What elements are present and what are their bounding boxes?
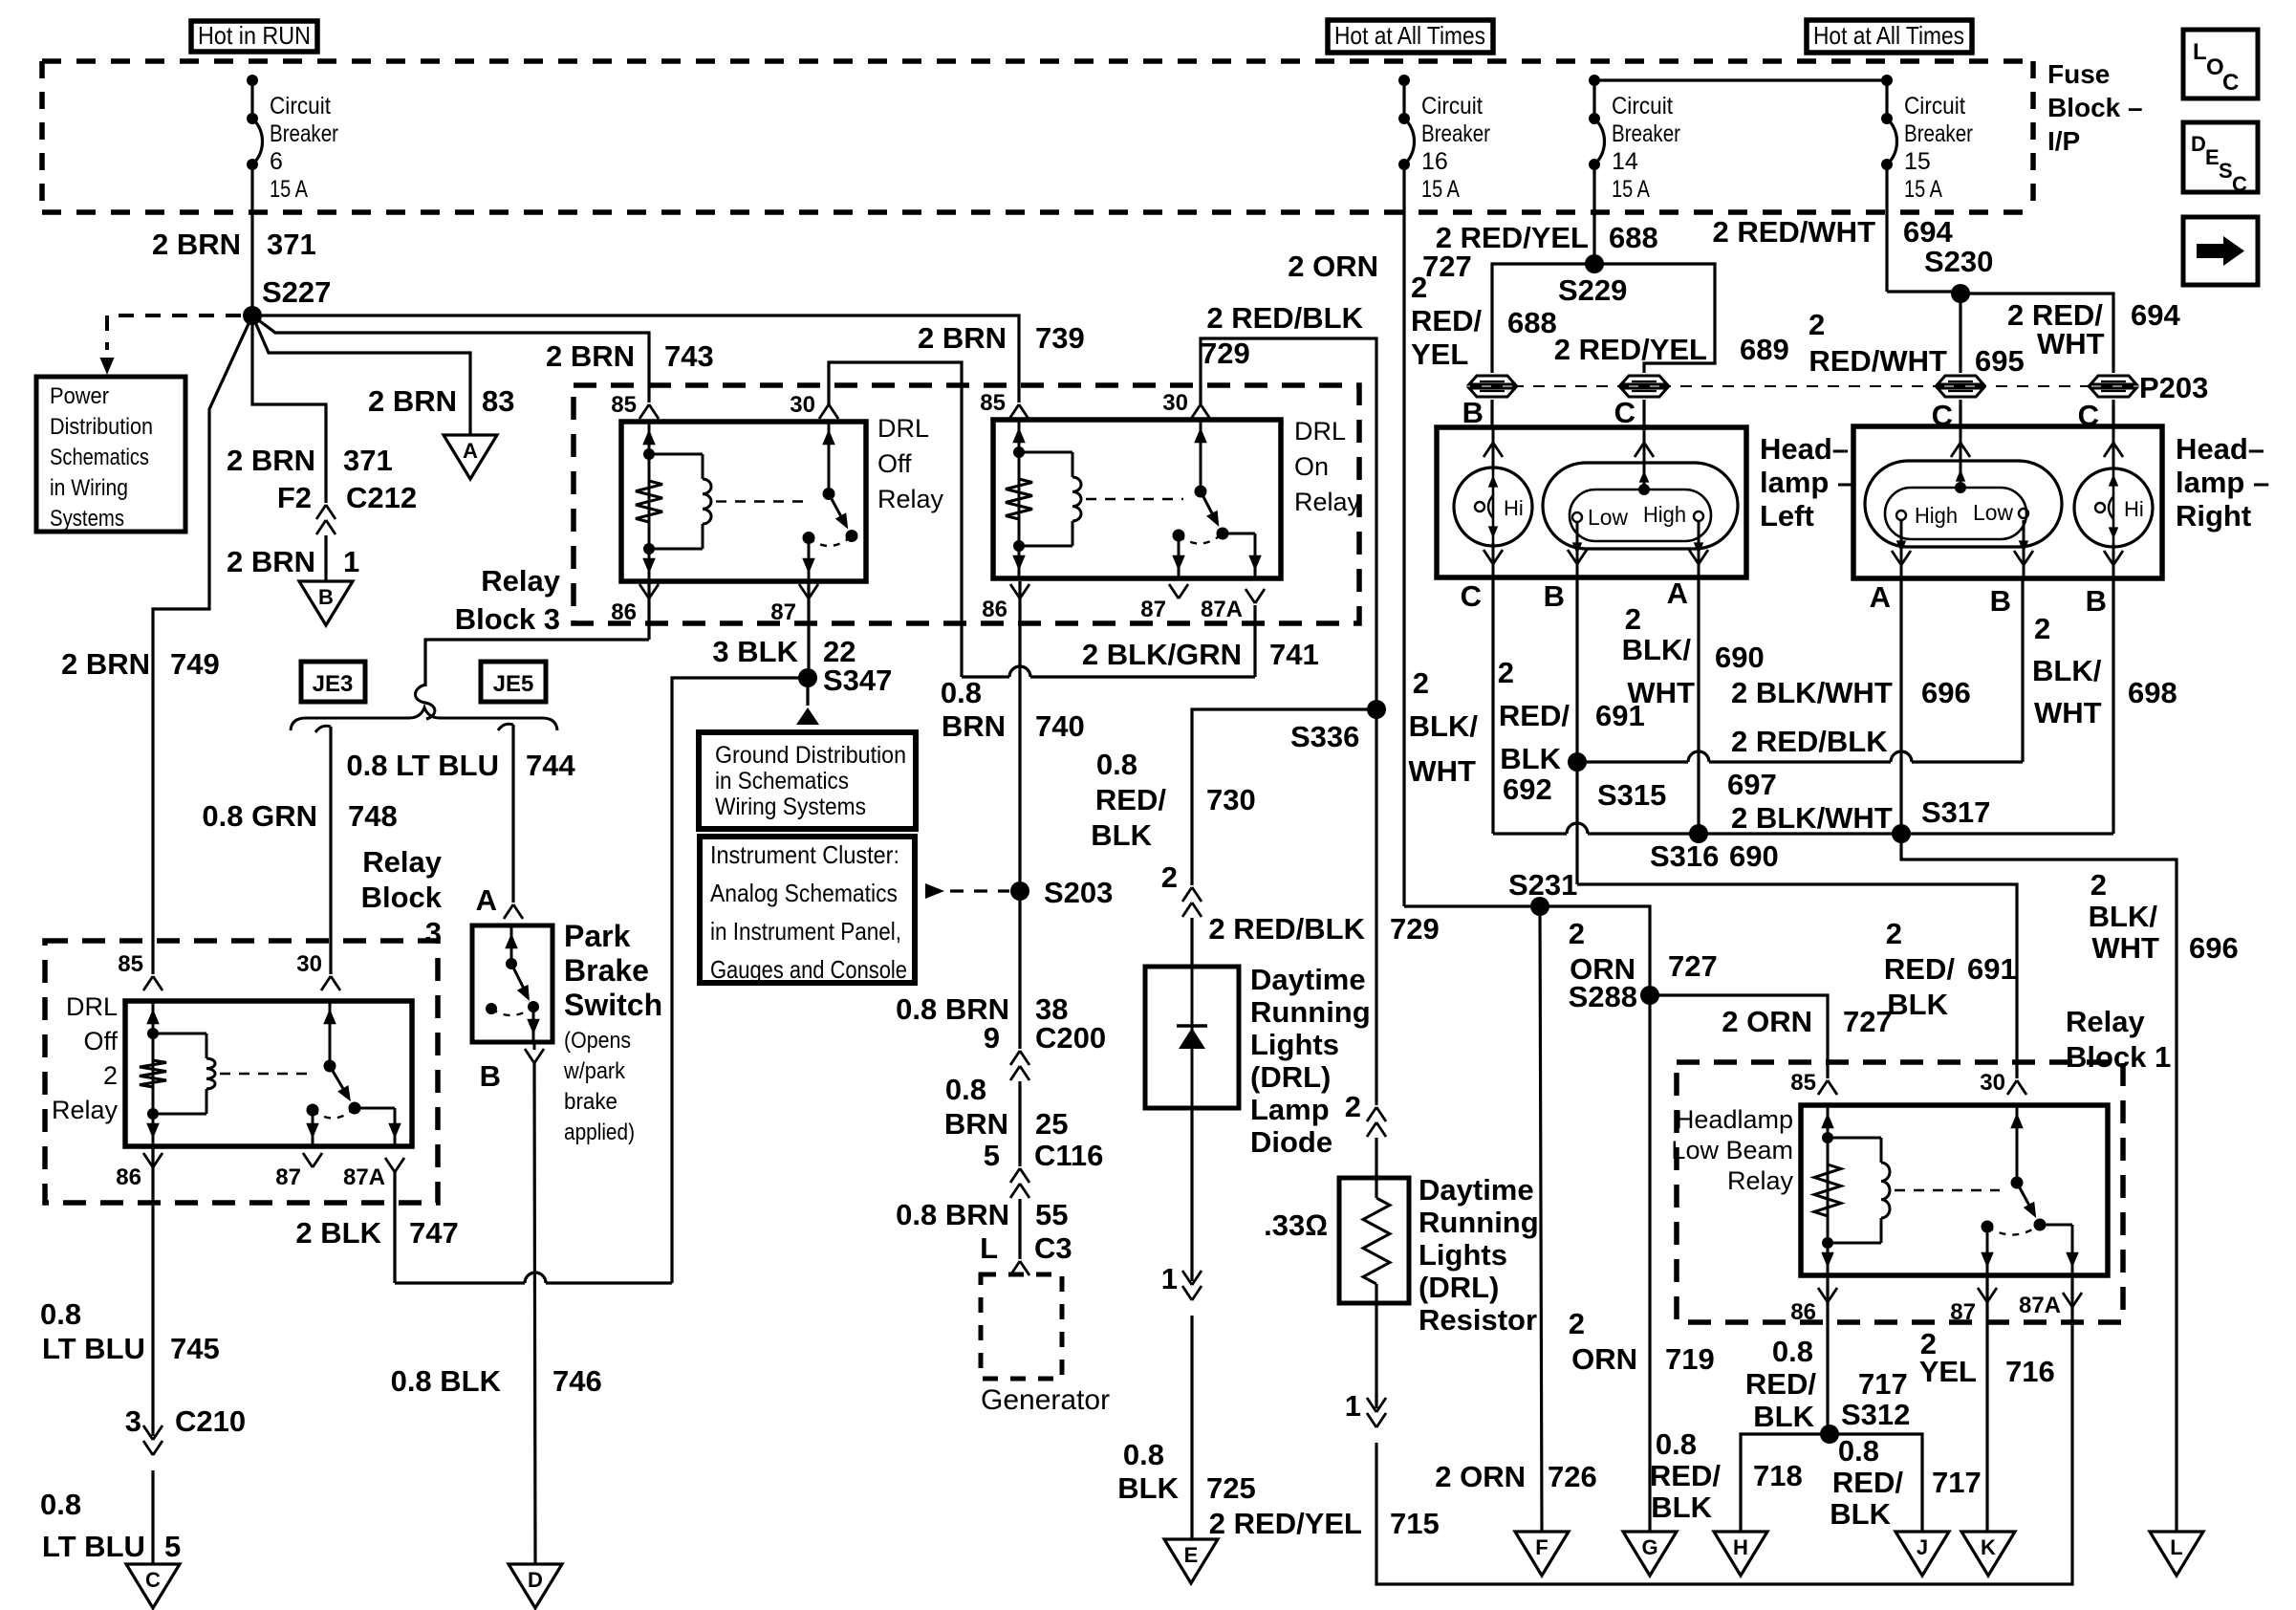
headlamp left low/high bulb: [1543, 427, 1738, 577]
wire from DRL Off relay 86 to splice brace: [416, 581, 660, 719]
svg-text:RED/: RED/: [1499, 699, 1570, 732]
ground distribution note box: [699, 732, 916, 829]
legend DESC box: [2183, 122, 2258, 196]
svg-text:F: F: [1535, 1535, 1548, 1559]
svg-text:BRN: BRN: [942, 709, 1006, 743]
splice pack JE5 label box: [481, 662, 546, 702]
svg-text:725: 725: [1206, 1471, 1256, 1505]
svg-text:P203: P203: [2139, 371, 2208, 404]
wire 0.8 LT BLU 744 (JE5 to park brake switch A): [346, 724, 575, 919]
svg-text:Breaker: Breaker: [1904, 120, 1973, 147]
svg-text:Low: Low: [1588, 505, 1628, 530]
svg-text:87: 87: [275, 1164, 301, 1190]
svg-text:2 BRN: 2 BRN: [918, 321, 1007, 355]
connector pin 2 (diode feed): [1161, 860, 1202, 917]
svg-text:691: 691: [1967, 952, 2017, 986]
node S315: [1568, 752, 1666, 812]
svg-text:Off: Off: [877, 449, 912, 478]
svg-text:6: 6: [270, 148, 283, 175]
headlamp left Hi bulb: [1454, 427, 1532, 577]
svg-text:C: C: [1614, 396, 1635, 429]
svg-text:C116: C116: [1034, 1139, 1103, 1172]
svg-text:in Wiring: in Wiring: [50, 475, 128, 501]
headlamp left box: [1437, 427, 1853, 577]
pin 85 label (DRL Off relay): [611, 392, 637, 418]
svg-text:.33Ω: .33Ω: [1264, 1208, 1328, 1242]
svg-text:2 RED/BLK: 2 RED/BLK: [1206, 301, 1363, 335]
svg-text:RED/: RED/: [1832, 1466, 1903, 1499]
svg-text:Head–: Head–: [1760, 432, 1849, 466]
svg-text:Headlamp: Headlamp: [1676, 1105, 1793, 1134]
svg-text:Park: Park: [564, 919, 631, 953]
svg-text:2 RED/YEL: 2 RED/YEL: [1436, 221, 1589, 254]
wire 2 BRN 371 (S227 to C212): [227, 315, 393, 503]
svg-text:WHT: WHT: [2034, 696, 2102, 729]
pin 86 label (low beam relay): [1790, 1288, 1837, 1325]
wire 0.8 BRN 55 (C116 to C3): [896, 1198, 1068, 1259]
svg-text:RED/: RED/: [1884, 952, 1955, 986]
svg-text:727: 727: [1843, 1005, 1893, 1038]
svg-text:WHT: WHT: [2037, 327, 2105, 360]
svg-text:2 BLK: 2 BLK: [295, 1216, 381, 1250]
svg-text:16: 16: [1421, 148, 1448, 175]
svg-text:Hi: Hi: [1504, 496, 1524, 520]
svg-text:Circuit: Circuit: [270, 93, 331, 120]
svg-text:0.8: 0.8: [40, 1488, 81, 1521]
svg-text:2 BLK/GRN: 2 BLK/GRN: [1082, 638, 1242, 671]
svg-text:Block: Block: [361, 881, 443, 914]
svg-text:lamp –: lamp –: [1760, 466, 1853, 499]
svg-text:25: 25: [1035, 1107, 1068, 1141]
svg-text:DRL: DRL: [877, 414, 929, 443]
svg-text:S288: S288: [1569, 980, 1637, 1013]
wire diode feed lower: [1190, 918, 1193, 967]
svg-text:Relay: Relay: [877, 485, 944, 513]
svg-text:2 ORN: 2 ORN: [1435, 1460, 1526, 1493]
svg-text:C3: C3: [1034, 1231, 1072, 1265]
svg-text:2: 2: [1498, 656, 1514, 689]
headlamp right Hi bulb: [2074, 426, 2153, 578]
svg-text:Daytime: Daytime: [1250, 963, 1366, 996]
svg-text:87: 87: [770, 599, 796, 625]
node S347: [798, 664, 892, 697]
svg-text:745: 745: [170, 1332, 220, 1365]
pin B label (headlamp left top): [1462, 396, 1492, 429]
svg-text:2: 2: [2034, 612, 2050, 645]
pin C label (headlamp right top): [1932, 399, 1960, 432]
label Hot in RUN: [191, 21, 317, 52]
fuse block I/P dashed outline: [42, 61, 2033, 212]
svg-text:Running: Running: [1250, 995, 1371, 1029]
svg-text:BLK: BLK: [1830, 1497, 1891, 1531]
svg-text:0.8: 0.8: [1838, 1434, 1879, 1468]
wire 2 BRN 743 (S227 to DRL Off relay 85): [252, 315, 714, 419]
pin 85 label (DRL On relay): [980, 390, 1006, 416]
svg-text:brake: brake: [564, 1089, 617, 1115]
svg-text:0.8: 0.8: [1123, 1438, 1164, 1471]
svg-text:2: 2: [1569, 917, 1585, 950]
wire 2 RED/BLK 697 (S315 splice run): [1577, 725, 2023, 801]
svg-text:S230: S230: [1924, 245, 1993, 278]
wire 2 BLK/WHT 698 (headlamp right Hi B down): [2032, 578, 2177, 834]
svg-text:2 BRN: 2 BRN: [227, 545, 315, 578]
wire 2 BRN 749 (S227 to DRL Off 2 relay 85): [61, 315, 252, 990]
svg-text:727: 727: [1422, 250, 1472, 283]
label Hot at All Times (left): [1328, 20, 1493, 53]
svg-text:2 RED/YEL: 2 RED/YEL: [1209, 1507, 1362, 1540]
pin A label (headlamp left bottom): [1667, 577, 1688, 610]
svg-text:Running: Running: [1419, 1206, 1539, 1239]
svg-text:BLK/: BLK/: [1409, 709, 1479, 743]
wire 2 BRN 371 (CB6 to S227): [152, 228, 316, 261]
svg-text:F2: F2: [277, 481, 312, 514]
svg-text:BLK: BLK: [1500, 742, 1561, 775]
node S229: [1558, 254, 1627, 307]
wire 0.8 RED/BLK 717 (low beam relay 86 to S312): [1745, 1275, 1908, 1433]
wire 2 BLK GRN 741 (DRL On 87A): [1082, 605, 1319, 677]
pin B label (headlamp left bottom): [1544, 579, 1565, 613]
svg-text:BRN: BRN: [944, 1107, 1008, 1141]
wire 2 BRN 1 (C212 to page connector B): [227, 535, 359, 581]
pin 87 label (DRL Off 2 relay): [275, 1153, 322, 1190]
wire 2 BLK/WHT 692 (headlamp left C down): [1408, 577, 1551, 834]
svg-text:15: 15: [1904, 148, 1931, 175]
connector C116 pin 5: [984, 1139, 1104, 1198]
svg-text:DRL: DRL: [66, 992, 118, 1021]
svg-text:Resistor: Resistor: [1419, 1303, 1537, 1337]
svg-text:Daytime: Daytime: [1419, 1173, 1534, 1207]
pin 87 label (DRL Off relay): [770, 584, 818, 625]
DRL Off 2 relay: [52, 992, 412, 1146]
svg-text:S203: S203: [1044, 876, 1113, 909]
wire 2 ORN 726 (S231 to page connector F): [1435, 906, 1596, 1532]
svg-text:2: 2: [1161, 860, 1178, 894]
legend LOC box: [2183, 30, 2258, 98]
svg-text:85: 85: [980, 390, 1006, 416]
svg-text:S227: S227: [262, 275, 331, 309]
pin 87A label (DRL On relay): [1201, 589, 1265, 622]
svg-text:Breaker: Breaker: [1421, 120, 1490, 147]
svg-text:I/P: I/P: [2047, 126, 2080, 156]
svg-text:C: C: [2222, 70, 2239, 96]
svg-text:0.8: 0.8: [1096, 748, 1137, 781]
DRL Off relay: [621, 414, 944, 581]
svg-text:Block –: Block –: [2047, 93, 2143, 122]
svg-text:Circuit: Circuit: [1904, 93, 1965, 120]
wire 2 RED/YEL 689 (S229 to headlamp left C): [1554, 264, 1789, 373]
svg-text:C: C: [2232, 172, 2247, 196]
svg-text:B: B: [1990, 584, 2011, 618]
node S203: [1010, 876, 1113, 909]
wire 0.8 BLK 725 / 2 RED/YEL 715 to page connector E: [1117, 1316, 1439, 1540]
wire 2 RED/BLK 691 (headlamp left B to low beam relay 30): [1498, 577, 2026, 1095]
svg-text:H: H: [1733, 1535, 1748, 1559]
svg-text:85: 85: [118, 951, 143, 977]
svg-text:Power: Power: [50, 383, 109, 409]
page connector C: [126, 1564, 180, 1608]
svg-text:0.8: 0.8: [1656, 1427, 1697, 1461]
svg-text:87A: 87A: [2019, 1293, 2061, 1318]
power distribution schematics note box: [36, 377, 185, 532]
wire 2 RED/WHT 694 (S230 to headlamp right Hi): [1960, 294, 2180, 373]
relay block 3 dashed outline: [455, 385, 1359, 636]
wire 2 BRN 739 (S227 to DRL On relay 85): [252, 315, 1085, 419]
svg-text:Relay: Relay: [1294, 488, 1361, 516]
svg-text:Generator: Generator: [981, 1384, 1110, 1416]
svg-text:BLK: BLK: [1091, 818, 1152, 852]
wire 2 RED/BLK 729 label (S336 column): [1208, 912, 1439, 946]
svg-text:JE3: JE3: [313, 671, 354, 697]
svg-text:Relay: Relay: [362, 845, 442, 879]
pin 30 label (DRL Off 2 relay): [296, 951, 322, 977]
page connector J: [1895, 1532, 1949, 1576]
wire 2 YEL 716 (low beam relay 87 to page connector K): [1919, 1275, 2055, 1532]
pin B label (park brake switch): [480, 1049, 544, 1093]
svg-text:Right: Right: [2176, 499, 2251, 533]
svg-text:S336: S336: [1290, 720, 1359, 753]
svg-text:C: C: [1461, 579, 1482, 613]
P203 inline connector dashed row: [1470, 385, 2135, 387]
svg-text:High: High: [1643, 502, 1686, 527]
dashed arrow instrument cluster to S203: [925, 883, 1009, 899]
svg-text:LT BLU: LT BLU: [42, 1332, 145, 1365]
svg-text:(Opens: (Opens: [564, 1028, 631, 1054]
pin 86 label (DRL Off relay): [611, 599, 637, 625]
svg-text:746: 746: [552, 1364, 602, 1398]
svg-text:749: 749: [170, 647, 220, 681]
svg-text:15 A: 15 A: [1612, 176, 1650, 203]
svg-text:B: B: [318, 585, 334, 609]
svg-text:688: 688: [1609, 221, 1658, 254]
wire 2 ORN 719 (S288 to page connector G): [1569, 995, 1715, 1532]
pin C label (headlamp left top): [1614, 396, 1644, 429]
svg-text:LT BLU: LT BLU: [42, 1530, 145, 1563]
connector C200 pin 9: [984, 1021, 1106, 1080]
svg-text:2 RED/BLK: 2 RED/BLK: [1731, 725, 1888, 758]
svg-text:690: 690: [1715, 641, 1765, 674]
svg-text:Relay: Relay: [2066, 1005, 2145, 1038]
svg-text:2 BRN: 2 BRN: [61, 647, 150, 681]
svg-text:C210: C210: [175, 1404, 246, 1438]
pin A label (headlamp right bottom): [1870, 580, 1891, 614]
svg-text:86: 86: [116, 1164, 141, 1190]
pin 87 label (DRL On relay): [1140, 584, 1188, 622]
DRL resistor .33 ohm: [1264, 1138, 1539, 1408]
circuit breaker 16 (15A): [1398, 75, 1490, 906]
svg-text:A: A: [463, 439, 478, 463]
svg-text:729: 729: [1201, 337, 1250, 370]
node S336: [1290, 700, 1386, 753]
dashed reference to power distribution: [100, 315, 242, 375]
pin 86 label (DRL Off 2 relay): [116, 1153, 162, 1190]
svg-text:Off: Off: [83, 1027, 118, 1055]
svg-text:Ground Distribution: Ground Distribution: [715, 742, 906, 769]
wire 0.8 BRN 25 (C200 to C116): [944, 1073, 1069, 1166]
svg-text:2 BRN: 2 BRN: [227, 444, 315, 477]
wire 0.8 GRN 748 (JE3 to DRL Off 2 relay 30): [202, 726, 397, 990]
wire 2 RED/BLK 729 (DRL On relay 30 to S336): [1191, 301, 1376, 709]
pin 30 label (DRL Off relay): [790, 392, 815, 418]
inline connector (695 into P203 row): [1938, 376, 1983, 397]
wire S231 to S288: [1540, 906, 1718, 993]
wire 2 ORN 727 (CB16 to S231): [1288, 250, 1540, 906]
svg-text:2: 2: [1411, 271, 1427, 304]
svg-text:D: D: [528, 1568, 543, 1592]
svg-text:2: 2: [1809, 308, 1825, 341]
svg-text:RED/: RED/: [1095, 783, 1166, 816]
svg-text:2 BRN: 2 BRN: [368, 384, 457, 418]
svg-text:Hot at All Times: Hot at All Times: [1334, 21, 1485, 50]
svg-text:B: B: [480, 1059, 501, 1093]
wire diode to connector 1: [1161, 1108, 1192, 1295]
connector C3 pin L: [980, 1231, 1072, 1275]
park brake switch: [472, 919, 662, 1145]
svg-text:695: 695: [1975, 344, 2025, 378]
pin 85 label (low beam relay): [1790, 1070, 1816, 1096]
svg-text:15 A: 15 A: [1904, 176, 1942, 203]
svg-text:JE5: JE5: [493, 671, 534, 697]
svg-text:L: L: [980, 1231, 998, 1265]
svg-text:1: 1: [343, 545, 359, 578]
wire 2 BLK 747 (DRL Off 2 relay 87A to S347 run): [295, 1172, 672, 1283]
svg-text:55: 55: [1035, 1198, 1068, 1231]
label Hot at All Times (right): [1807, 20, 1972, 53]
svg-text:717: 717: [1858, 1367, 1908, 1401]
svg-text:S229: S229: [1558, 273, 1627, 307]
svg-text:E: E: [1184, 1543, 1199, 1567]
pin 87A label (low beam relay): [2019, 1293, 2082, 1318]
svg-text:86: 86: [1790, 1299, 1816, 1325]
svg-text:Schematics: Schematics: [50, 445, 149, 470]
svg-text:Block 3: Block 3: [455, 602, 560, 636]
svg-text:B: B: [2086, 584, 2107, 618]
pin 85 label (DRL Off 2 relay): [118, 951, 143, 977]
svg-text:Relay: Relay: [1727, 1166, 1794, 1195]
svg-text:WHT: WHT: [1627, 676, 1695, 709]
svg-text:On: On: [1294, 452, 1329, 481]
node S288: [1569, 980, 1659, 1013]
svg-text:S312: S312: [1841, 1398, 1910, 1431]
pin B label (headlamp right Hi bottom): [2086, 584, 2107, 618]
svg-text:applied): applied): [564, 1120, 635, 1145]
svg-text:739: 739: [1035, 321, 1085, 355]
svg-text:2 ORN: 2 ORN: [1722, 1005, 1812, 1038]
svg-text:WHT: WHT: [2091, 931, 2159, 965]
svg-text:696: 696: [2189, 931, 2239, 965]
svg-text:30: 30: [1162, 390, 1188, 416]
pin A label (park brake switch): [476, 883, 497, 917]
node S312: [1820, 1398, 1910, 1444]
svg-text:5: 5: [984, 1139, 1000, 1172]
svg-text:0.8: 0.8: [1772, 1335, 1813, 1368]
node S317: [1892, 795, 1990, 843]
pin 30 label (low beam relay): [1980, 1070, 2005, 1096]
wire S347 to 747 run: [672, 678, 799, 1283]
svg-text:A: A: [476, 883, 497, 917]
svg-text:87A: 87A: [343, 1164, 385, 1190]
svg-text:2: 2: [2090, 868, 2107, 902]
DRL lamp diode: [1145, 963, 1371, 1159]
circuit breaker 14 (15A): [1589, 75, 1680, 264]
svg-text:744: 744: [526, 749, 575, 782]
svg-text:BLK: BLK: [1117, 1471, 1179, 1505]
svg-text:Relay: Relay: [52, 1096, 119, 1124]
svg-text:30: 30: [1980, 1070, 2005, 1096]
inline connector (688 into P203 row): [1469, 376, 1515, 397]
svg-text:J: J: [1917, 1535, 1928, 1559]
svg-text:BLK/: BLK/: [2089, 900, 2158, 933]
svg-text:Wiring Systems: Wiring Systems: [715, 794, 866, 820]
relay block 3 (lower) dashed outline: [45, 845, 443, 1203]
svg-text:Relay: Relay: [481, 564, 560, 598]
svg-text:0.8 BRN: 0.8 BRN: [896, 1198, 1009, 1231]
inline connector (689 into P203 row): [1621, 376, 1667, 397]
svg-text:C: C: [145, 1568, 161, 1592]
pin B label (headlamp right bottom): [1990, 584, 2011, 618]
headlamp right high/low bulb: [1865, 426, 2062, 578]
svg-text:2: 2: [1345, 1090, 1361, 1123]
page connector F: [1515, 1532, 1569, 1576]
svg-text:743: 743: [664, 339, 714, 373]
svg-text:C212: C212: [346, 481, 417, 514]
wire 3 BLK 22 (DRL Off relay 87 to S347): [712, 581, 856, 678]
wire linking CB14 and CB15 tops: [1594, 78, 1887, 81]
svg-text:2 BRN: 2 BRN: [546, 339, 635, 373]
node S230: [1924, 245, 1993, 303]
svg-text:S317: S317: [1921, 795, 1990, 829]
svg-text:9: 9: [984, 1021, 1000, 1055]
svg-text:698: 698: [2128, 676, 2177, 709]
wire 2 BRN 83 (S227 to page connector A): [252, 315, 514, 435]
svg-text:Left: Left: [1760, 499, 1814, 533]
svg-text:Fuse: Fuse: [2047, 59, 2110, 89]
svg-text:in Schematics: in Schematics: [715, 768, 849, 794]
page connector H: [1714, 1532, 1767, 1576]
svg-text:5: 5: [164, 1530, 181, 1563]
wire headlamp right B to 697 splice: [2021, 578, 2024, 762]
svg-text:688: 688: [1507, 306, 1557, 339]
wire 2 RED/YEL 688 (S229 to headlamp left B): [1411, 264, 1594, 373]
node S316: [1650, 824, 1719, 873]
connector pin 1 (resistor out): [1345, 1389, 1386, 1427]
svg-text:689: 689: [1740, 333, 1789, 366]
svg-text:3 BLK: 3 BLK: [712, 635, 798, 668]
wire 0.8 BLK 746 (park brake B to page connector D): [391, 1042, 602, 1564]
svg-text:O: O: [2206, 54, 2224, 80]
svg-text:Hi: Hi: [2124, 497, 2144, 521]
svg-text:Distribution: Distribution: [50, 414, 153, 440]
legend arrow box: [2183, 217, 2258, 285]
pin 87 label (low beam relay): [1950, 1288, 1997, 1325]
pin 86 label (DRL On relay): [982, 584, 1029, 622]
wire 0.8 BRN 38 (S203 to C200): [896, 891, 1068, 1049]
svg-text:2 ORN: 2 ORN: [1288, 250, 1378, 283]
svg-text:748: 748: [348, 799, 398, 833]
svg-text:RED/: RED/: [1650, 1459, 1721, 1492]
wire 2 BLK/WHT 690 (headlamp left A down): [1622, 577, 1765, 834]
wire 2 RED/WHT 695 (S230 to headlamp right C): [1809, 294, 2025, 378]
svg-text:690: 690: [1729, 839, 1779, 873]
svg-text:Lamp: Lamp: [1250, 1093, 1330, 1126]
node S231: [1508, 868, 1577, 916]
svg-text:Lights: Lights: [1250, 1028, 1339, 1061]
connector pin 2 (resistor feed): [1367, 1107, 1386, 1137]
page connector B: [299, 581, 353, 625]
svg-text:S315: S315: [1597, 778, 1666, 812]
svg-text:30: 30: [296, 951, 322, 977]
svg-text:Block 1: Block 1: [2066, 1040, 2171, 1074]
svg-text:747: 747: [409, 1216, 459, 1250]
